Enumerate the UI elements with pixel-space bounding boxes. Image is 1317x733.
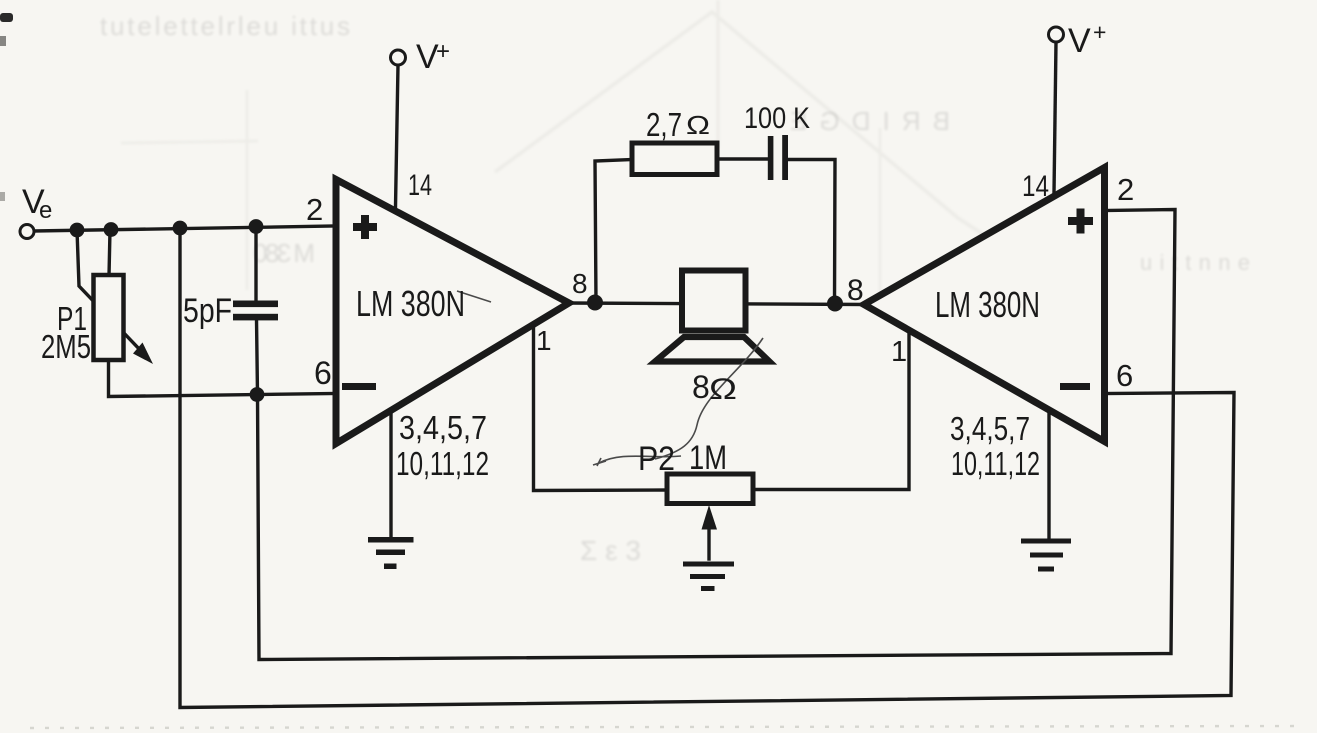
svg-text:1M: 1M [689,439,727,477]
svg-text:6: 6 [1116,358,1133,393]
svg-text:LM 380N: LM 380N [356,283,465,324]
svg-text:+: + [1093,19,1106,45]
svg-text:8: 8 [572,268,588,299]
svg-text:1: 1 [536,325,552,356]
svg-text:8: 8 [847,274,864,307]
svg-text:10,11,12: 10,11,12 [396,445,489,482]
svg-text:P2: P2 [638,440,675,478]
svg-text:Ω: Ω [709,373,737,406]
svg-text:M 380: M 380 [253,238,315,268]
svg-text:14: 14 [1022,170,1049,203]
svg-text:100 K: 100 K [744,102,810,135]
svg-text:2: 2 [1117,172,1134,207]
svg-text:Ω: Ω [686,110,710,140]
svg-text:2,7: 2,7 [646,106,682,143]
svg-text:V: V [1068,22,1091,60]
svg-text:2M5: 2M5 [41,328,91,365]
svg-text:6: 6 [314,355,332,391]
svg-text:Σ ε 3: Σ ε 3 [580,535,641,566]
svg-text:LM 380N: LM 380N [935,284,1040,325]
svg-text:3,4,5,7: 3,4,5,7 [950,410,1030,447]
svg-text:1: 1 [891,336,907,368]
svg-text:3,4,5,7: 3,4,5,7 [399,409,487,446]
svg-text:10,11,12: 10,11,12 [951,445,1040,482]
svg-text:5pF: 5pF [183,292,232,330]
svg-text:2: 2 [306,192,323,227]
svg-text:e: e [39,197,52,224]
svg-text:+: + [436,38,450,65]
svg-text:8: 8 [692,369,710,405]
svg-text:14: 14 [408,169,432,202]
